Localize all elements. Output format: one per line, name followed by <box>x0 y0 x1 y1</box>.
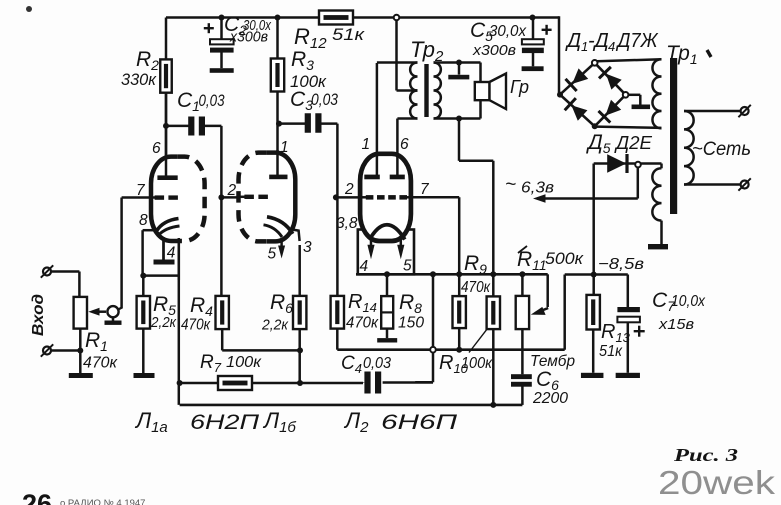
svg-text:х15в: х15в <box>658 316 694 333</box>
svg-text:6,3в: 6,3в <box>521 180 554 197</box>
svg-text:51к: 51к <box>332 25 365 44</box>
svg-text:Вход: Вход <box>30 294 47 336</box>
svg-text:1: 1 <box>362 136 371 153</box>
svg-text:1: 1 <box>280 139 289 156</box>
svg-text:о РАДИО № 4 1947: о РАДИО № 4 1947 <box>60 498 145 505</box>
svg-text:х300в: х300в <box>229 30 268 46</box>
svg-text:Рис. 3: Рис. 3 <box>673 445 739 465</box>
svg-text:6Н6П: 6Н6П <box>381 411 458 434</box>
svg-text:150: 150 <box>398 315 424 332</box>
svg-text:0,03: 0,03 <box>199 91 225 110</box>
svg-text:2: 2 <box>344 181 354 198</box>
svg-text:10,0х: 10,0х <box>671 293 706 310</box>
svg-text:30,0х: 30,0х <box>489 23 527 40</box>
svg-text:-Д: -Д <box>588 30 609 52</box>
svg-text:Д7Ж: Д7Ж <box>616 30 659 52</box>
svg-text:500к: 500к <box>545 249 584 268</box>
svg-text:5: 5 <box>403 258 412 275</box>
svg-text:х300в: х300в <box>472 42 516 59</box>
svg-text:470к: 470к <box>83 355 118 372</box>
svg-text:470к: 470к <box>346 315 379 332</box>
svg-text:6: 6 <box>400 136 409 153</box>
svg-text:3,8: 3,8 <box>336 215 358 232</box>
svg-text:3: 3 <box>303 239 312 256</box>
svg-text:7: 7 <box>136 182 146 199</box>
svg-text:6Н2П: 6Н2П <box>190 411 260 434</box>
svg-text:2,2к: 2,2к <box>150 314 177 331</box>
svg-text:Д: Д <box>565 30 581 52</box>
svg-text:Гр: Гр <box>510 77 529 97</box>
svg-text:6: 6 <box>152 140 161 157</box>
svg-text:8: 8 <box>139 212 148 229</box>
svg-text:4: 4 <box>608 39 615 54</box>
svg-text:470к: 470к <box>181 317 211 334</box>
svg-text:20wek: 20wek <box>658 464 776 501</box>
svg-text:51к: 51к <box>599 343 623 360</box>
svg-text:26: 26 <box>22 489 52 505</box>
svg-text:5: 5 <box>268 246 277 263</box>
svg-text:100к: 100к <box>461 355 493 372</box>
svg-text:2,2к: 2,2к <box>261 317 289 334</box>
svg-text:~Сеть: ~Сеть <box>692 139 751 160</box>
svg-text:0,03: 0,03 <box>363 355 391 372</box>
svg-text:7: 7 <box>420 181 430 198</box>
svg-text:4: 4 <box>167 245 176 262</box>
svg-text:2: 2 <box>227 182 237 199</box>
svg-text:100к: 100к <box>226 354 262 371</box>
svg-text:2200: 2200 <box>532 390 568 407</box>
svg-text:~: ~ <box>505 175 516 196</box>
svg-text:4: 4 <box>360 258 369 275</box>
svg-text:−8,5в: −8,5в <box>598 256 644 273</box>
svg-text:470к: 470к <box>461 279 491 296</box>
svg-text:330к: 330к <box>121 70 157 89</box>
svg-text:Д2Е: Д2Е <box>614 133 653 153</box>
svg-text:0,03: 0,03 <box>311 90 338 109</box>
